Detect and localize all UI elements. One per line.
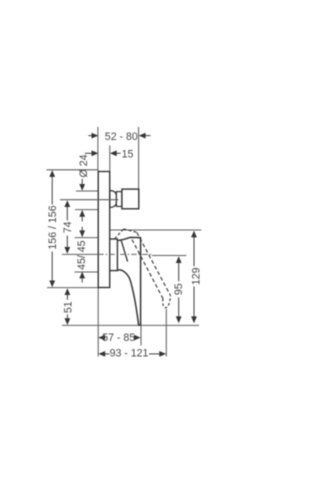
handle hub (cartridge housing) (110, 239, 118, 271)
sleeve narrow band (116, 192, 122, 207)
dimension 93-121 arrows (y353.9) (104, 353, 160, 355)
dashed lever shaft left edge (132, 240, 163, 299)
extension line bottom of diameter 24 (y209.6) (75, 209, 98, 211)
svg-text:74: 74 (62, 221, 74, 233)
dashed lever shaft right edge (137, 233, 171, 296)
dimension diameter-24 arrows (column x82.2) (81, 179, 83, 222)
extension line below plate left edge (x98.2) (97, 288, 99, 357)
svg-text:129: 129 (191, 267, 203, 285)
svg-text:Ø 24: Ø 24 (78, 154, 90, 177)
dimension 95 (column x178.7) (178, 262, 180, 318)
dimension 57-85 arrows (y337.6) (104, 337, 135, 339)
svg-text:93 - 121: 93 - 121 (110, 348, 149, 360)
extension line top of diameter 24 (y191) (76, 190, 98, 192)
svg-text:156 / 156: 156 / 156 (47, 205, 59, 249)
extension line 45/45 bottom (y272) (75, 271, 99, 273)
handle centerline left solid segment (y254.4) (62, 253, 98, 255)
sleeve end cap cylinder (122, 189, 139, 209)
svg-text:15: 15 (122, 148, 134, 160)
lever neck slant detail (121, 240, 128, 262)
svg-text:51: 51 (62, 301, 74, 313)
sleeve bulge at plate (110, 191, 117, 208)
extension line 45/45 middle (y237.6) (75, 237, 99, 239)
extension line below dashed lever tip (x166.3) (165, 309, 167, 357)
extension line top of 129 (y230) (107, 229, 201, 231)
dimension 156/156 (column x52.2) (51, 176, 53, 282)
extension line right of 15 (x109.8) (109, 145, 111, 171)
dimension 74 (column x67.3) (66, 206, 68, 248)
extension line right of 52-80 (x138.6) (138, 127, 140, 189)
extension line left of 52-80 (x97.9) (97, 127, 99, 171)
svg-text:52 - 80: 52 - 80 (105, 131, 138, 143)
extension line below lever edge (x141) (140, 325, 142, 345)
extension line top of 156/156 (y169.8) (47, 169, 99, 171)
svg-text:95: 95 (173, 283, 185, 295)
dimension 45/45 arrows (column x82.2) (81, 227, 83, 283)
extension line top of 95 (y255.7) (152, 255, 186, 257)
dashed lever base outline (open position) (115, 229, 124, 239)
lever handle (closed position) (117, 237, 140, 325)
dimension 52-80 arrows (88, 135, 150, 137)
extension line bottom of 156/156 (y287.6) (47, 287, 98, 289)
svg-text:45/ 45: 45/ 45 (76, 240, 88, 270)
dimension 129 (column x194) (193, 237, 195, 318)
dashed lever rounded tip (163, 295, 171, 307)
spout centerline (y199.7) (60, 199, 119, 201)
dimension 15 arrows (85, 152, 121, 154)
dimension 51 (column x67.4) (66, 294, 68, 320)
bottom baseline (y325.4) (62, 324, 199, 326)
handle centerline dash-dot through hub and lever (98, 253, 152, 255)
wall plate (side view) (98, 172, 110, 288)
svg-text:57 - 85: 57 - 85 (102, 332, 135, 344)
